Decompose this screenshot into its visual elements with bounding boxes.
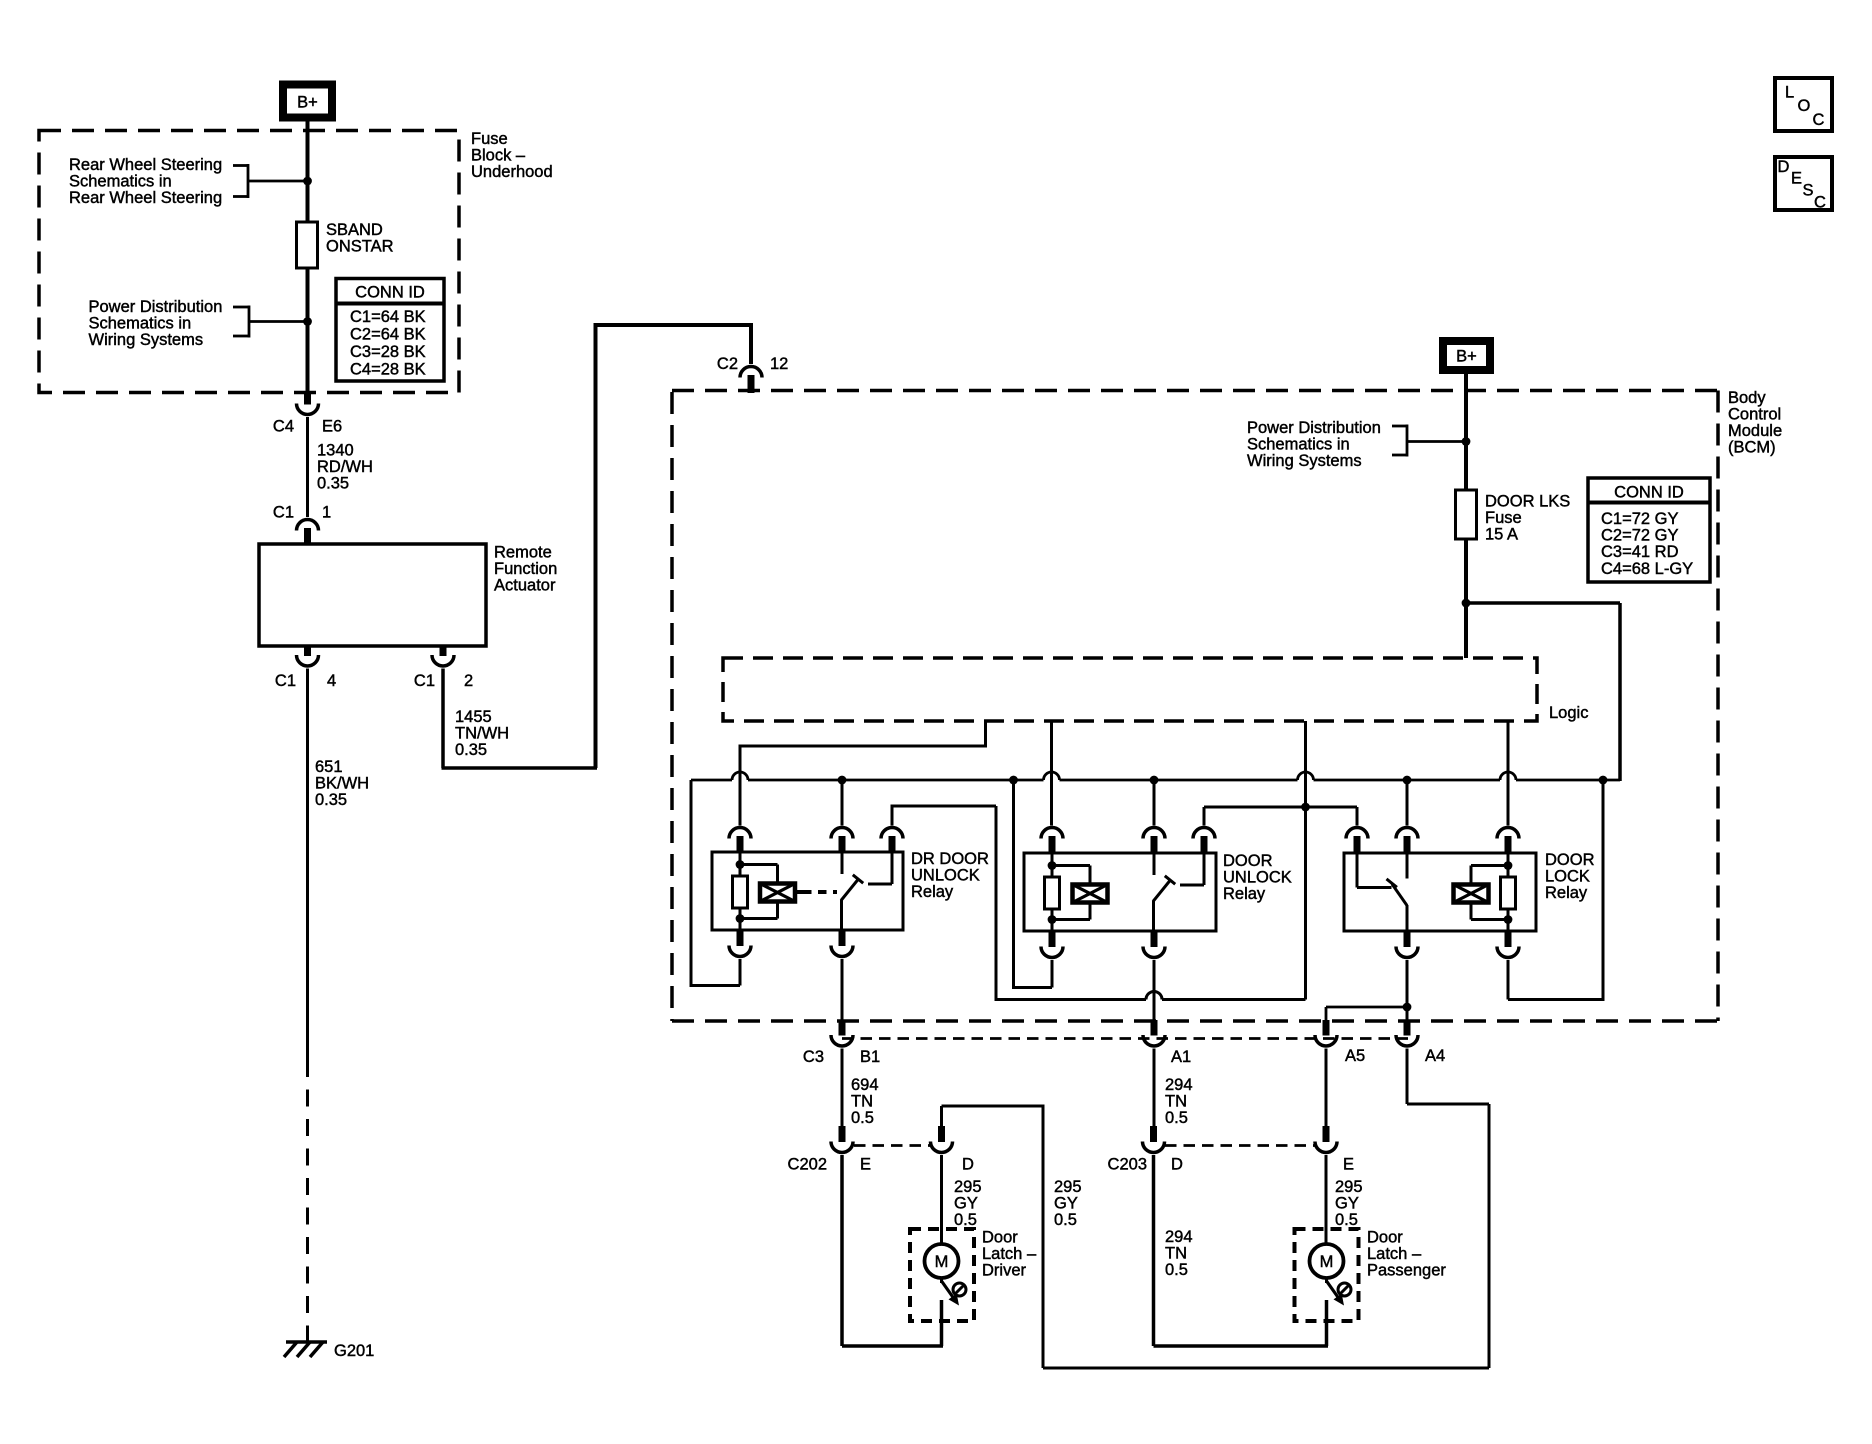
junction node A5/A4 split (1403, 1003, 1412, 1012)
svg-text:Fuse: Fuse (1485, 509, 1522, 527)
svg-text:694: 694 (851, 1076, 879, 1094)
wire C203-E to passenger latch motor (1325, 1155, 1328, 1245)
note Power Distribution Schematics (left) (89, 298, 223, 349)
wire K2 blade to bottom pin (1152, 901, 1155, 931)
junction node bus / DOOR LOCK coil return (1599, 776, 1608, 785)
svg-text:Latch –: Latch – (982, 1245, 1037, 1263)
svg-text:C1: C1 (414, 672, 435, 690)
label SBAND ONSTAR (326, 221, 394, 256)
svg-text:Power Distribution: Power Distribution (1247, 419, 1381, 437)
svg-text:1455: 1455 (455, 708, 492, 726)
svg-text:UNLOCK: UNLOCK (911, 867, 980, 885)
relay K3 switch blade (1387, 879, 1408, 906)
wire logic to relay switch common (1304, 721, 1307, 807)
svg-text:B+: B+ (297, 94, 318, 112)
svg-text:DR DOOR: DR DOOR (911, 850, 989, 868)
connector C203 pin E (1315, 1126, 1337, 1153)
svg-text:Relay: Relay (1545, 884, 1588, 902)
svg-text:SBAND: SBAND (326, 221, 383, 239)
svg-text:Fuse: Fuse (471, 130, 508, 148)
note Rear Wheel Steering Schematics (69, 156, 222, 207)
wire K3 coil parallel branch (1471, 866, 1508, 920)
connector C1 pin 1 (297, 520, 319, 544)
connector row C203 inline (dotted) (1165, 1144, 1315, 1147)
label wire 295 GY 0.5 (A5) (1335, 1178, 1363, 1229)
connector C203 pin D (1143, 1126, 1165, 1153)
relay K2 switch fixed contact (1153, 853, 1156, 875)
svg-text:GY: GY (1335, 1195, 1359, 1213)
wire fuse to logic and relay bus (1464, 539, 1468, 658)
module Remote Function Actuator (259, 544, 486, 646)
svg-text:12: 12 (770, 355, 788, 373)
svg-text:E: E (860, 1156, 871, 1174)
svg-text:TN/WH: TN/WH (455, 725, 509, 743)
label DOOR UNLOCK Relay (1223, 852, 1292, 903)
svg-text:295: 295 (954, 1178, 982, 1196)
wire passenger latch return to C203-D (1154, 1155, 1329, 1346)
svg-text:S: S (1803, 182, 1814, 200)
svg-text:0.35: 0.35 (455, 741, 487, 759)
connector K2 switch pin top (1143, 828, 1165, 854)
connector K1 coil pin bottom (729, 930, 751, 957)
relay K3 switch fixed contact (1406, 853, 1409, 879)
svg-text:GY: GY (1054, 1195, 1078, 1213)
door latch driver dashed boundary (910, 1229, 974, 1321)
wire A4 to driver latch (295 GY) (942, 1049, 1490, 1369)
logic block (dashed) (723, 658, 1537, 721)
connector C202 pin D (931, 1126, 953, 1153)
fuse DOOR LKS 15 A (1456, 490, 1477, 539)
junction node power distribution tap (BCM) (1462, 437, 1471, 446)
wire DOOR UNLOCK coil return loop (1014, 780, 1053, 989)
svg-text:RD/WH: RD/WH (317, 458, 373, 476)
relay K1 switch blade (841, 875, 863, 901)
fuse SBAND ONSTAR (297, 222, 318, 268)
svg-text:2: 2 (464, 672, 473, 690)
bracket Power Distribution tap (left) (233, 306, 307, 338)
connector pin A1 (1143, 1020, 1165, 1046)
wire relay switch commons tie line (1204, 807, 1357, 826)
svg-text:Latch –: Latch – (1367, 1245, 1422, 1263)
coil K2 winding (1073, 885, 1108, 903)
connector K1 switch pin top (831, 828, 853, 853)
svg-text:DOOR LKS: DOOR LKS (1485, 493, 1570, 511)
wire C202-D to driver latch motor (940, 1155, 943, 1245)
svg-text:C1=72 GY: C1=72 GY (1601, 510, 1679, 528)
connector table CONN ID (BCM) (1588, 478, 1710, 582)
svg-text:TN: TN (1165, 1093, 1187, 1111)
svg-text:Door: Door (982, 1229, 1018, 1247)
svg-text:C2: C2 (717, 355, 738, 373)
wire 651 BK/WH 0.35 (solid part) (306, 669, 309, 1061)
svg-text:DOOR: DOOR (1545, 851, 1595, 869)
svg-text:295: 295 (1054, 1178, 1082, 1196)
wire driver latch return to C202-E (842, 1155, 943, 1346)
label E (C203) (1343, 1156, 1354, 1174)
svg-text:Block –: Block – (471, 147, 526, 165)
junction node bus / DR DOOR UNLOCK switch (838, 776, 847, 785)
svg-text:B+: B+ (1456, 348, 1477, 366)
label Door Latch - Driver (982, 1229, 1037, 1280)
svg-text:294: 294 (1165, 1228, 1193, 1246)
module Body Control Module dashed boundary (672, 391, 1718, 1022)
connector pin A5 (1315, 1020, 1337, 1046)
label C1 4 (275, 672, 336, 690)
svg-text:Rear Wheel Steering: Rear Wheel Steering (69, 156, 222, 174)
wire 294 TN 0.5 upper (1153, 1049, 1156, 1127)
label A4 (1425, 1047, 1445, 1065)
ground G201 (284, 1342, 327, 1357)
coil K3 winding (1454, 885, 1489, 903)
relay K2 DOOR UNLOCK body (1024, 853, 1216, 931)
junction node fuse output (1462, 599, 1471, 608)
wire bus to DOOR UNLOCK switch pin (1153, 780, 1156, 826)
bracket Rear Wheel Steering tap (233, 164, 307, 198)
connector K2 output pin top (1193, 828, 1215, 854)
svg-text:D: D (1778, 158, 1790, 176)
wire DOOR LOCK coil return loop (1508, 780, 1605, 1001)
wire logic to DOOR UNLOCK relay coil (1050, 721, 1053, 826)
wire K3 input contact (1357, 853, 1392, 888)
label C1 1 (273, 504, 331, 522)
svg-text:0.5: 0.5 (1054, 1211, 1077, 1229)
svg-text:Rear Wheel Steering: Rear Wheel Steering (69, 189, 222, 207)
relay K3 coil node bottom (1504, 909, 1513, 931)
resistor K3 coil suppression (1501, 877, 1516, 909)
Fuse Block - Underhood dashed boundary (39, 131, 459, 393)
connector K3 coil pin top (1497, 828, 1519, 854)
label Door Latch - Passenger (1367, 1229, 1446, 1280)
svg-text:Wiring Systems: Wiring Systems (89, 331, 204, 349)
svg-text:B1: B1 (860, 1048, 880, 1066)
wire K3 switch output down (1406, 960, 1409, 1020)
svg-text:TN: TN (1165, 1245, 1187, 1263)
svg-text:D: D (1171, 1156, 1183, 1174)
relay K3 DOOR LOCK body (1344, 853, 1536, 931)
button LOC (1775, 78, 1832, 131)
svg-text:BK/WH: BK/WH (315, 775, 369, 793)
resistor K1 coil suppression (733, 876, 748, 908)
connector C1 pin 2 (432, 646, 454, 666)
svg-text:UNLOCK: UNLOCK (1223, 869, 1292, 887)
label Fuse Block - Underhood (471, 130, 553, 181)
label wire 294 TN 0.5 (C203) (1165, 1228, 1193, 1279)
motor M passenger latch (1310, 1244, 1344, 1278)
switch driver latch (942, 1278, 967, 1306)
svg-text:C1=64 BK: C1=64 BK (350, 308, 426, 326)
svg-text:4: 4 (327, 672, 336, 690)
label Remote Function Actuator (494, 544, 557, 595)
svg-text:C203: C203 (1108, 1156, 1147, 1174)
power symbol B+ (fuse block feed) (283, 85, 332, 118)
connector K1 switch pin bottom (831, 930, 853, 957)
connector C3 pin B1 (831, 1020, 853, 1046)
svg-text:Relay: Relay (911, 883, 954, 901)
svg-text:294: 294 (1165, 1076, 1193, 1094)
wire 694 TN 0.5 (841, 1049, 844, 1127)
connector table CONN ID (fuse block) (336, 279, 444, 382)
relay K1 DR DOOR UNLOCK body (712, 852, 903, 930)
svg-text:E6: E6 (322, 418, 342, 436)
power symbol B+ (BCM feed) (1443, 341, 1490, 370)
relay K1 switch fixed contact (841, 852, 844, 874)
relay K1 coil node top (736, 852, 745, 876)
wire B+ to DOOR LKS fuse (1464, 374, 1468, 490)
label wire 295 GY 0.5 (A4 run) (1054, 1178, 1082, 1229)
svg-text:C: C (1813, 111, 1825, 129)
svg-text:C1: C1 (273, 504, 294, 522)
svg-text:C4=28 BK: C4=28 BK (350, 361, 426, 379)
svg-text:Underhood: Underhood (471, 163, 553, 181)
label DR DOOR UNLOCK Relay (911, 850, 989, 901)
wire bus to DOOR LOCK switch pin (1406, 780, 1409, 826)
bracket Power Distribution tap (BCM) (1392, 425, 1466, 457)
connector K1 output pin top (881, 828, 903, 853)
svg-text:C4: C4 (273, 418, 294, 436)
junction node switch common tie (1301, 803, 1310, 812)
connector K3 input pin top (1346, 828, 1368, 854)
svg-text:Passenger: Passenger (1367, 1262, 1446, 1280)
connector K3 switch pin bottom (1396, 931, 1418, 958)
label Logic (1549, 704, 1588, 722)
wire K1 coil parallel branch (740, 865, 778, 919)
svg-text:0.5: 0.5 (851, 1109, 874, 1127)
svg-text:Logic: Logic (1549, 704, 1588, 722)
svg-text:Schematics in: Schematics in (69, 173, 172, 191)
label C1 2 (414, 672, 473, 690)
wire B+ to fuse SBAND (306, 121, 310, 222)
junction node bus / DOOR UNLOCK switch (1150, 776, 1159, 785)
svg-text:Door: Door (1367, 1229, 1403, 1247)
connector row C3/A inline (dotted) (842, 1037, 1408, 1040)
connector K1 coil pin top (729, 828, 751, 853)
wire 1340 RD/WH 0.35 (306, 417, 309, 517)
svg-text:0.35: 0.35 (315, 791, 347, 809)
switch passenger latch (1327, 1278, 1352, 1306)
svg-text:E: E (1343, 1156, 1354, 1174)
svg-text:C3=28 BK: C3=28 BK (350, 343, 426, 361)
svg-text:0.5: 0.5 (1165, 1261, 1188, 1279)
coil K1 winding (760, 884, 795, 902)
svg-text:O: O (1798, 97, 1811, 115)
svg-text:C2=64 BK: C2=64 BK (350, 326, 426, 344)
svg-text:TN: TN (851, 1093, 873, 1111)
wire bus to DR DOOR UNLOCK switch pin (841, 780, 844, 826)
wire fuse to connector C4 (306, 268, 310, 392)
relay K3 coil node top (1504, 853, 1513, 877)
svg-text:Schematics in: Schematics in (89, 315, 192, 333)
label DOOR LKS Fuse 15 A (1485, 493, 1570, 544)
motor M driver latch (925, 1244, 959, 1278)
svg-text:ONSTAR: ONSTAR (326, 238, 394, 256)
svg-text:Relay: Relay (1223, 885, 1266, 903)
svg-text:CONN ID: CONN ID (1614, 484, 1684, 502)
label C2 12 (717, 355, 788, 373)
connector K2 switch pin bottom (1143, 931, 1165, 958)
svg-text:1: 1 (322, 504, 331, 522)
note Power Distribution Schematics (BCM) (1247, 419, 1381, 470)
connector C1 pin 4 (297, 646, 319, 666)
label wire 295 GY 0.5 (driver latch) (954, 1178, 982, 1229)
svg-text:E: E (1791, 170, 1802, 188)
wire K2 output contact (1180, 853, 1204, 885)
svg-text:Control: Control (1728, 406, 1781, 424)
relay K1 coil node bottom (736, 908, 745, 930)
wire branch to A5 (1326, 1007, 1407, 1020)
svg-text:LOCK: LOCK (1545, 868, 1590, 886)
relay K2 coil node top (1048, 853, 1057, 877)
label wire 1340 RD/WH 0.35 (317, 442, 373, 493)
wire logic to DR DOOR UNLOCK relay coil (739, 721, 988, 826)
junction node bus / DOOR LOCK switch (1403, 776, 1412, 785)
svg-text:(BCM): (BCM) (1728, 439, 1776, 457)
connector K2 coil pin bottom (1041, 931, 1063, 958)
label C203 D (1108, 1156, 1183, 1174)
svg-text:Schematics in: Schematics in (1247, 436, 1350, 454)
svg-text:D: D (962, 1156, 974, 1174)
wire relay supply bus (B+ rail inside BCM) (691, 772, 1620, 780)
svg-text:C3=41 RD: C3=41 RD (1601, 543, 1679, 561)
svg-text:M: M (935, 1253, 949, 1271)
wire K1 blade to bottom pin (840, 900, 843, 930)
svg-text:1340: 1340 (317, 442, 354, 460)
connector K2 coil pin top (1041, 828, 1063, 854)
mechanical linkage K1 (dashed) (803, 890, 837, 894)
label DOOR LOCK Relay (1545, 851, 1595, 902)
svg-text:C3: C3 (803, 1048, 824, 1066)
svg-text:A4: A4 (1425, 1047, 1445, 1065)
svg-text:Power Distribution: Power Distribution (89, 298, 223, 316)
connector pin A4 (1396, 1020, 1418, 1046)
wire K1 output to C3-B1 (841, 959, 844, 1020)
resistor K2 coil suppression (1045, 877, 1060, 909)
wire K3 blade to bottom pin (1406, 905, 1409, 931)
label A5 (1345, 1047, 1365, 1065)
svg-text:A5: A5 (1345, 1047, 1365, 1065)
svg-text:295: 295 (1335, 1178, 1363, 1196)
svg-text:0.5: 0.5 (954, 1211, 977, 1229)
wire K1 coil armature stub (795, 890, 803, 894)
svg-text:Actuator: Actuator (494, 577, 556, 595)
label D (C202) (962, 1156, 974, 1174)
svg-text:C1: C1 (275, 672, 296, 690)
wire K1 output contact (868, 852, 892, 884)
wire 295 GY 0.5 upper (1325, 1049, 1328, 1127)
relay K2 coil node bottom (1048, 909, 1057, 931)
svg-text:15 A: 15 A (1485, 526, 1518, 544)
svg-text:651: 651 (315, 758, 343, 776)
wire relay output run to DOOR LOCK coil node (996, 807, 1306, 1000)
svg-text:L: L (1785, 84, 1794, 102)
svg-text:Module: Module (1728, 422, 1782, 440)
wire K2 coil parallel branch (1052, 866, 1090, 920)
svg-text:G201: G201 (334, 1342, 374, 1360)
svg-text:A1: A1 (1171, 1048, 1191, 1066)
svg-text:DOOR: DOOR (1223, 852, 1273, 870)
label C4 E6 (273, 418, 342, 436)
svg-text:CONN ID: CONN ID (355, 284, 425, 302)
label wire 694 TN 0.5 (851, 1076, 879, 1127)
label wire 1455 TN/WH 0.35 (455, 708, 509, 759)
svg-text:Body: Body (1728, 389, 1766, 407)
junction node on B+ wire (rear wheel steering tap) (303, 177, 312, 186)
door latch passenger dashed boundary (1295, 1229, 1359, 1321)
junction node on B+ wire (power distribution tap) (303, 317, 312, 326)
svg-text:Wiring Systems: Wiring Systems (1247, 452, 1362, 470)
label A1 (1171, 1048, 1191, 1066)
label wire 294 TN 0.5 (1165, 1076, 1193, 1127)
wire K2 output to A1 (1153, 960, 1156, 1020)
connector row C202 inline (dotted) (854, 1144, 930, 1147)
connector C2 pin 12 (740, 367, 762, 393)
svg-text:M: M (1320, 1253, 1334, 1271)
wire 651 BK/WH dashed run to ground (306, 1060, 309, 1342)
button DESC (1775, 157, 1832, 212)
svg-text:Driver: Driver (982, 1262, 1027, 1280)
svg-text:C2=72 GY: C2=72 GY (1601, 527, 1679, 545)
junction node bus / DOOR UNLOCK coil return (1009, 776, 1018, 785)
label Body Control Module (BCM) (1728, 389, 1782, 457)
svg-text:0.5: 0.5 (1335, 1211, 1358, 1229)
wire logic to DOOR LOCK relay coil (1507, 721, 1510, 826)
svg-text:C202: C202 (788, 1156, 827, 1174)
wire DR DOOR UNLOCK relay output riser (891, 806, 997, 1001)
label C3 B1 (803, 1048, 880, 1066)
svg-text:0.35: 0.35 (317, 475, 349, 493)
wire DR DOOR UNLOCK coil return loop (691, 780, 740, 987)
connector K3 switch pin top (1396, 827, 1418, 853)
svg-text:GY: GY (954, 1195, 978, 1213)
label wire 651 BK/WH 0.35 (315, 758, 369, 809)
wire branch to relay bus right end (1466, 603, 1620, 781)
relay K2 switch blade (1153, 876, 1175, 902)
connector C4 pin E6 (297, 391, 319, 415)
svg-text:Remote: Remote (494, 544, 552, 562)
svg-text:C4=68 L-GY: C4=68 L-GY (1601, 560, 1693, 578)
wire 1455 TN/WH 0.35 from C1-2 to C2-12 (442, 323, 752, 768)
svg-text:0.5: 0.5 (1165, 1109, 1188, 1127)
svg-text:Function: Function (494, 560, 557, 578)
svg-text:C: C (1814, 194, 1826, 212)
connector C202 pin E (831, 1126, 853, 1153)
label G201 (334, 1342, 374, 1360)
connector K3 coil pin bottom (1497, 931, 1519, 958)
label C202 E (788, 1156, 871, 1174)
